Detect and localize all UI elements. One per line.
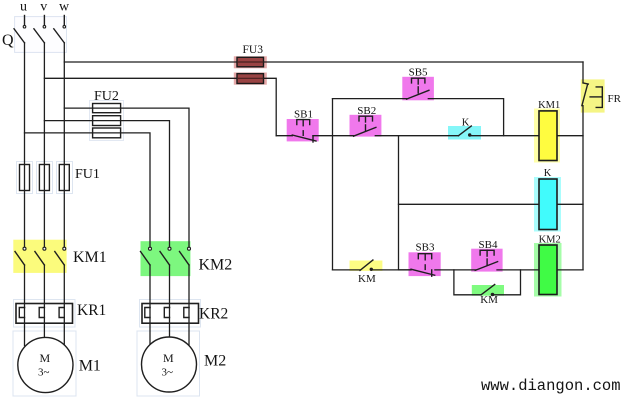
- coil KM2 highlight glow: [534, 243, 562, 297]
- relay contact K: [459, 118, 472, 137]
- svg-text:3~: 3~: [162, 367, 174, 379]
- contact KM NC aux: [358, 260, 376, 285]
- wire KM1 coil to right rail: [557, 135, 583, 137]
- svg-text:KR1: KR1: [77, 302, 106, 319]
- pushbutton SB5 highlight: [402, 77, 434, 101]
- pushbutton SB4 highlight: [471, 249, 502, 272]
- svg-text:FR: FR: [608, 93, 622, 105]
- svg-text:u: u: [20, 0, 27, 15]
- motor M2 highlight: [137, 331, 200, 396]
- svg-text:FU1: FU1: [75, 167, 100, 182]
- svg-text:K: K: [462, 118, 470, 129]
- thermal contact FR: [582, 83, 622, 107]
- wire u to FU2 bottom elbow: [25, 133, 151, 247]
- thermal relay KR2: [142, 304, 228, 324]
- pushbutton SB3: [399, 242, 435, 277]
- svg-text:KM: KM: [480, 294, 498, 306]
- wire right rail upper: [582, 62, 584, 83]
- pushbutton SB1: [276, 108, 316, 142]
- thermal relay KR2 highlight: [140, 300, 201, 328]
- svg-text:SB1: SB1: [294, 108, 313, 120]
- switch Q highlight: [15, 17, 67, 53]
- pushbutton SB1 highlight: [287, 119, 319, 141]
- disconnect switch Q: [2, 16, 66, 50]
- wire SB5 rung right elbow: [428, 99, 503, 136]
- svg-text:M: M: [163, 351, 174, 365]
- svg-text:v: v: [40, 0, 47, 15]
- fuse FU1 highlight: [17, 162, 73, 194]
- wire SB2 to K contact: [375, 135, 458, 137]
- wire SB1 to SB2: [313, 135, 355, 137]
- fuse FU3 highlight: [234, 56, 267, 84]
- svg-text:M2: M2: [204, 352, 226, 369]
- contactor KM1 main contacts highlight: [13, 240, 66, 273]
- svg-text:KM: KM: [358, 273, 376, 285]
- wire KM aux to SB3: [371, 269, 411, 271]
- contact KM (NC aux) highlight: [350, 261, 383, 271]
- wire KR1 to motor M1 right: [63, 308, 65, 345]
- wire top rail from w to FU3a to right rail: [64, 61, 583, 63]
- svg-text:M1: M1: [79, 358, 101, 375]
- svg-text:KM2: KM2: [199, 257, 233, 274]
- wire phase u vertical: [24, 43, 26, 247]
- relay contact K highlight: [448, 126, 481, 140]
- wire SB4 to KM2 coil: [497, 269, 539, 271]
- svg-text:KM1: KM1: [538, 100, 560, 111]
- svg-text:KR2: KR2: [199, 306, 228, 323]
- wire parallel branch right up: [493, 270, 521, 295]
- svg-text:FU3: FU3: [243, 44, 264, 56]
- wire KM1 to KR1 phase v: [43, 265, 45, 308]
- wire SB2 output vertical: [398, 136, 400, 270]
- wire parallel branch down left: [454, 270, 481, 295]
- fuse FU2: [93, 89, 121, 138]
- svg-text:SB2: SB2: [357, 105, 376, 117]
- svg-text:SB3: SB3: [416, 242, 435, 254]
- coil KM1: [538, 100, 560, 160]
- fuse FU1: [20, 165, 100, 191]
- fuse FU2 highlight: [90, 101, 124, 141]
- wire K coil to right rail: [557, 203, 583, 205]
- pushbutton SB2: [354, 105, 377, 136]
- wire KR2 to motor M2: [150, 308, 189, 346]
- wire KR1 to motor M1 middle: [43, 308, 45, 338]
- thermal contact FR highlight: [581, 79, 605, 112]
- pushbutton SB5: [407, 67, 429, 99]
- thermal relay KR1: [16, 302, 106, 323]
- contact KM (NO aux) highlight: [472, 285, 504, 296]
- coil KM1 highlight glow: [534, 109, 560, 163]
- wire bottom rung left: [333, 269, 361, 271]
- wire v to FU3b: [44, 78, 276, 135]
- wire w to FU2 top elbow: [64, 108, 189, 247]
- wire right rail lower: [582, 106, 584, 270]
- svg-text:Q: Q: [2, 32, 14, 49]
- wire K contact to KM1 coil: [470, 135, 539, 137]
- svg-text:w: w: [59, 0, 70, 15]
- wire KM2 to KR2 phases: [150, 265, 189, 308]
- pushbutton SB4: [475, 239, 498, 270]
- pushbutton SB3 highlight: [409, 252, 441, 276]
- contact KM NO aux: [480, 285, 498, 307]
- svg-text:SB4: SB4: [479, 239, 498, 251]
- coil KM2: [539, 235, 561, 295]
- motor M2: [142, 337, 227, 392]
- fuse FU3: [237, 44, 264, 84]
- svg-text:KM2: KM2: [539, 235, 561, 246]
- wire KR1 to motor M1 left: [24, 308, 26, 346]
- wire phase v vertical: [43, 43, 45, 247]
- wire node A vertical SB5 branch left: [332, 99, 334, 270]
- pushbutton SB2 highlight: [350, 115, 382, 137]
- contactor KM2 main contacts: [141, 247, 233, 273]
- contactor KM1 main contacts: [15, 247, 107, 266]
- coil K: [539, 168, 557, 229]
- svg-text:KM1: KM1: [73, 249, 107, 266]
- thermal relay KR1 highlight: [14, 300, 76, 328]
- svg-text:M: M: [40, 351, 51, 365]
- wire phase w vertical: [63, 43, 65, 247]
- svg-text:www.diangon.com: www.diangon.com: [481, 377, 621, 395]
- wire K coil rung: [399, 203, 540, 205]
- svg-text:FU2: FU2: [94, 89, 119, 104]
- svg-text:SB5: SB5: [409, 67, 428, 79]
- contactor KM2 main contacts highlight: [141, 241, 191, 276]
- wire KM2 coil to right rail: [557, 269, 583, 271]
- wire KM1 to KR1 phase w: [63, 265, 65, 308]
- svg-text:K: K: [544, 168, 552, 179]
- wire v to FU2 middle elbow: [44, 121, 169, 248]
- motor M1 highlight: [13, 331, 76, 396]
- svg-text:3~: 3~: [38, 367, 50, 379]
- wire KM1 to KR1 phase u: [24, 265, 26, 308]
- coil K highlight glow: [534, 177, 561, 232]
- wire SB3 to SB4: [435, 269, 476, 271]
- motor M1: [18, 337, 101, 392]
- wire SB5 rung left: [333, 98, 408, 100]
